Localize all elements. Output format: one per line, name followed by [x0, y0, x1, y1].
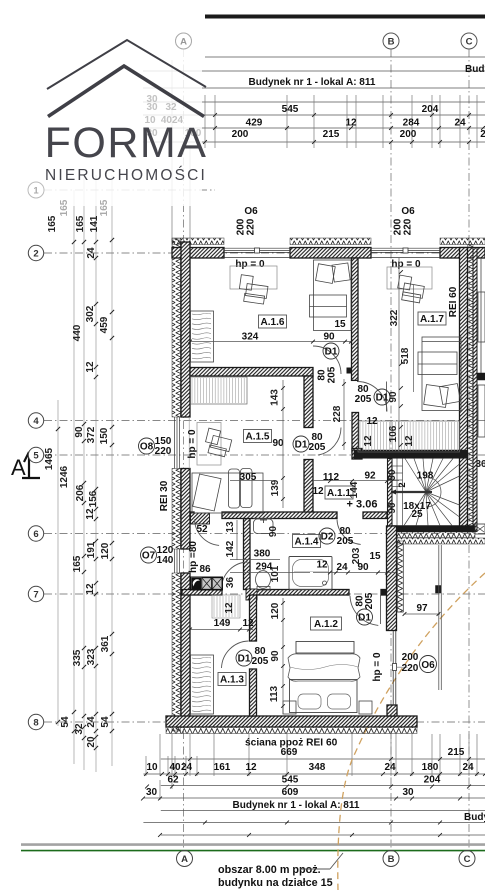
svg-text:141: 141: [89, 215, 100, 232]
svg-text:30: 30: [146, 787, 158, 798]
svg-text:323: 323: [86, 648, 97, 665]
svg-text:24: 24: [86, 247, 97, 259]
svg-text:32: 32: [165, 102, 177, 113]
svg-text:348: 348: [309, 762, 326, 773]
svg-text:D1: D1: [295, 440, 308, 451]
svg-text:hp =80: hp =80: [188, 541, 199, 573]
svg-text:144: 144: [349, 481, 360, 498]
svg-text:30: 30: [402, 787, 414, 798]
svg-text:24: 24: [336, 562, 348, 573]
svg-text:220: 220: [403, 218, 414, 235]
svg-text:O6: O6: [401, 206, 415, 217]
svg-text:97: 97: [416, 603, 428, 614]
svg-text:O6: O6: [421, 660, 435, 671]
svg-text:361: 361: [100, 635, 111, 652]
svg-text:hp = 0: hp = 0: [235, 259, 265, 270]
svg-text:52: 52: [196, 524, 208, 535]
svg-text:206: 206: [75, 484, 86, 501]
svg-text:6: 6: [33, 529, 38, 540]
svg-text:205: 205: [364, 592, 375, 609]
svg-text:1: 1: [33, 186, 39, 197]
svg-text:156: 156: [88, 490, 99, 507]
svg-text:220: 220: [402, 663, 419, 674]
svg-text:D1: D1: [358, 613, 371, 624]
svg-text:142: 142: [225, 540, 236, 557]
svg-text:12: 12: [242, 618, 254, 629]
svg-text:203: 203: [351, 547, 362, 564]
svg-text:324: 324: [242, 332, 259, 343]
svg-text:D1: D1: [238, 654, 251, 665]
svg-text:215: 215: [448, 747, 465, 758]
svg-text:FORMA: FORMA: [45, 119, 208, 167]
svg-text:A.1.6: A.1.6: [261, 317, 285, 328]
svg-text:C: C: [464, 854, 471, 865]
svg-text:REI 30: REI 30: [159, 480, 170, 511]
svg-text:90: 90: [323, 332, 335, 343]
svg-text:obszar 8.00 m ppoż.: obszar 8.00 m ppoż.: [218, 864, 321, 876]
svg-text:15: 15: [334, 319, 346, 330]
svg-text:205: 205: [252, 656, 269, 667]
svg-text:2: 2: [397, 482, 408, 487]
svg-text:106: 106: [388, 425, 399, 442]
svg-text:322: 322: [389, 309, 400, 326]
svg-text:429: 429: [246, 118, 263, 129]
svg-text:D1: D1: [325, 347, 338, 358]
svg-text:302: 302: [85, 305, 96, 322]
svg-text:+ 3.06: + 3.06: [347, 499, 378, 511]
svg-text:12: 12: [345, 118, 357, 129]
svg-text:hp = 0: hp = 0: [372, 652, 383, 682]
svg-text:36: 36: [475, 459, 485, 470]
svg-text:372: 372: [86, 426, 97, 443]
svg-text:200: 200: [402, 652, 419, 663]
svg-text:10: 10: [146, 762, 158, 773]
svg-text:518: 518: [400, 347, 411, 364]
svg-text:D2: D2: [321, 532, 334, 543]
svg-text:36: 36: [225, 577, 236, 589]
svg-text:120: 120: [270, 602, 281, 619]
svg-text:12: 12: [363, 435, 374, 447]
svg-text:205: 205: [355, 394, 372, 405]
svg-text:669: 669: [281, 747, 298, 758]
svg-text:24: 24: [181, 762, 193, 773]
svg-text:C: C: [466, 36, 473, 47]
svg-text:O7: O7: [142, 551, 156, 562]
svg-text:215: 215: [323, 129, 340, 140]
svg-text:140: 140: [157, 555, 174, 566]
svg-text:24: 24: [454, 118, 466, 129]
svg-text:A.1.2: A.1.2: [314, 619, 338, 630]
svg-text:15: 15: [369, 551, 381, 562]
svg-text:12: 12: [85, 361, 96, 373]
svg-text:149: 149: [214, 618, 231, 629]
svg-text:220: 220: [246, 218, 257, 235]
svg-text:139: 139: [270, 479, 281, 496]
svg-text:B: B: [388, 854, 395, 865]
svg-text:12: 12: [404, 435, 415, 447]
svg-text:8: 8: [33, 718, 38, 729]
svg-text:609: 609: [282, 787, 299, 798]
svg-text:O6: O6: [244, 206, 258, 217]
svg-text:5: 5: [33, 451, 39, 462]
svg-text:86: 86: [199, 564, 211, 575]
svg-text:191: 191: [86, 541, 97, 558]
svg-text:228: 228: [332, 405, 343, 422]
svg-text:198: 198: [417, 471, 434, 482]
svg-text:B: B: [388, 36, 395, 47]
svg-text:90: 90: [387, 469, 398, 481]
svg-text:40: 40: [169, 762, 181, 773]
svg-text:A: A: [11, 455, 26, 480]
svg-text:380: 380: [254, 549, 271, 560]
svg-text:12: 12: [245, 762, 257, 773]
svg-text:92: 92: [364, 471, 376, 482]
svg-text:budynku na działce 15: budynku na działce 15: [218, 877, 333, 889]
svg-text:440: 440: [72, 324, 83, 341]
svg-text:165: 165: [99, 199, 110, 216]
svg-text:305: 305: [240, 472, 257, 483]
svg-text:ściana ppoż REI 60: ściana ppoż REI 60: [245, 738, 338, 749]
svg-text:A: A: [180, 36, 187, 47]
svg-text:Budynek: Budynek: [464, 812, 485, 823]
svg-text:204: 204: [422, 104, 439, 115]
svg-text:90: 90: [74, 426, 85, 438]
svg-text:12: 12: [224, 602, 235, 614]
svg-text:A.1.3: A.1.3: [220, 675, 244, 686]
svg-text:A: A: [181, 854, 188, 865]
svg-text:335: 335: [72, 649, 83, 666]
svg-text:Budynek nr 1 - lokal A: 811: Budynek nr 1 - lokal A: 811: [249, 77, 376, 88]
svg-text:90: 90: [387, 502, 398, 514]
svg-text:12: 12: [316, 560, 328, 571]
svg-text:90: 90: [272, 438, 284, 449]
svg-text:165: 165: [72, 555, 83, 572]
svg-text:90: 90: [268, 526, 279, 538]
svg-text:NIERUCHOMOŚCI: NIERUCHOMOŚCI: [45, 166, 207, 184]
svg-text:284: 284: [403, 118, 420, 129]
svg-text:90: 90: [388, 391, 399, 403]
svg-text:205: 205: [309, 442, 326, 453]
svg-text:101: 101: [270, 565, 281, 582]
svg-text:12: 12: [366, 416, 378, 427]
svg-text:O8: O8: [140, 442, 154, 453]
svg-text:24: 24: [462, 762, 474, 773]
svg-text:62: 62: [167, 775, 179, 786]
svg-text:54: 54: [100, 716, 111, 728]
svg-text:205: 205: [327, 366, 338, 383]
svg-text:220: 220: [155, 446, 172, 457]
svg-text:A.1.5: A.1.5: [246, 432, 270, 443]
svg-text:113: 113: [269, 685, 280, 702]
svg-text:165: 165: [59, 199, 70, 216]
svg-text:120: 120: [100, 542, 111, 559]
svg-text:hp = 0: hp = 0: [187, 429, 198, 459]
svg-text:200: 200: [400, 129, 417, 140]
svg-text:A.1.4: A.1.4: [295, 537, 319, 548]
svg-text:112: 112: [323, 472, 340, 483]
svg-text:12: 12: [85, 508, 96, 520]
svg-text:2: 2: [33, 249, 38, 260]
svg-text:165: 165: [75, 215, 86, 232]
svg-text:7: 7: [33, 590, 38, 601]
svg-text:24: 24: [384, 762, 396, 773]
svg-text:1465: 1465: [44, 447, 55, 470]
svg-text:A.1.7: A.1.7: [420, 314, 444, 325]
svg-text:A.1.1: A.1.1: [327, 488, 351, 499]
svg-text:Budynek: Budynek: [465, 64, 485, 75]
svg-text:54: 54: [60, 716, 71, 728]
svg-text:13: 13: [225, 521, 236, 533]
svg-text:180: 180: [422, 762, 439, 773]
svg-text:161: 161: [214, 762, 231, 773]
svg-text:REI 60: REI 60: [448, 286, 459, 317]
svg-text:204: 204: [424, 775, 441, 786]
svg-text:24: 24: [86, 716, 97, 728]
svg-text:143: 143: [270, 389, 281, 406]
svg-text:hp = 0: hp = 0: [391, 259, 421, 270]
svg-text:25: 25: [411, 509, 423, 520]
svg-text:205: 205: [337, 536, 354, 547]
svg-text:D1: D1: [376, 393, 389, 404]
svg-text:30: 30: [146, 102, 158, 113]
svg-text:165: 165: [47, 215, 58, 232]
svg-text:459: 459: [99, 316, 110, 333]
svg-text:12: 12: [312, 486, 324, 497]
svg-text:200: 200: [232, 129, 249, 140]
svg-text:2: 2: [480, 129, 485, 140]
svg-text:150: 150: [99, 427, 110, 444]
svg-text:4: 4: [33, 416, 39, 427]
svg-text:545: 545: [282, 775, 299, 786]
svg-text:545: 545: [282, 104, 299, 115]
svg-text:90: 90: [270, 650, 281, 662]
svg-text:1246: 1246: [59, 465, 70, 488]
